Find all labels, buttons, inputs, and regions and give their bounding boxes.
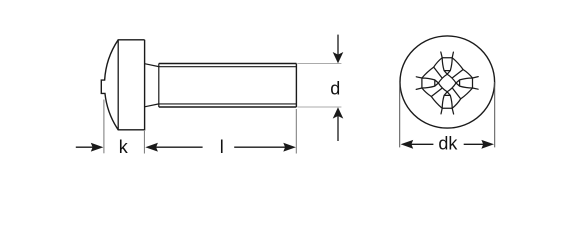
svg-text:k: k xyxy=(119,137,129,157)
neck run-out slants xyxy=(145,64,159,107)
dk extension lines xyxy=(400,82,495,147)
head front view circle xyxy=(400,36,495,128)
shank outer rectangle xyxy=(159,64,297,108)
svg-text:dk: dk xyxy=(438,133,458,153)
d dimension upper arrow xyxy=(337,35,339,55)
k arrow (points right) xyxy=(76,146,95,148)
dk left arrow (points left) xyxy=(401,140,414,149)
screw head outline xyxy=(101,40,144,130)
l extension lines xyxy=(143,131,145,154)
thread root lines xyxy=(159,67,297,104)
head dome tangent line xyxy=(117,40,119,130)
dk right arrow (points right) xyxy=(464,143,485,145)
l left arrow (points left) xyxy=(145,143,158,152)
phillips recess pattern xyxy=(416,52,478,114)
shank start vertical xyxy=(158,64,160,108)
phillips center square concave sides xyxy=(438,74,456,92)
svg-text:d: d xyxy=(330,79,340,99)
d dimension lower arrow xyxy=(337,116,339,141)
svg-text:l: l xyxy=(220,137,224,157)
k extension line xyxy=(103,100,105,154)
l right arrow (points right) xyxy=(234,146,287,148)
gray extension lines right of shank xyxy=(298,64,342,108)
